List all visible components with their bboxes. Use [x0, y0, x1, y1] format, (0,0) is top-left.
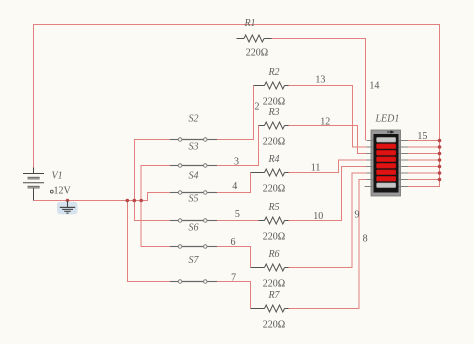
unlit segment bar 8 [377, 183, 396, 188]
ground (selected highlight) [57, 201, 78, 215]
lit segment bar 3 [377, 150, 396, 155]
switch S5 [170, 194, 217, 223]
LED left pin stubs [365, 141, 409, 187]
svg-text:7: 7 [231, 273, 236, 284]
svg-text:220Ω: 220Ω [263, 320, 285, 331]
wire S3 to R3 (net 3) [217, 126, 259, 166]
svg-text:S3: S3 [189, 141, 199, 152]
svg-text:S5: S5 [189, 194, 199, 205]
switch S2 [170, 114, 217, 142]
svg-text:220Ω: 220Ω [263, 184, 285, 195]
junction on bus [66, 199, 70, 203]
switch S3 [170, 141, 217, 167]
svg-text:11: 11 [311, 163, 321, 174]
junction on bus [139, 199, 143, 203]
svg-text:5: 5 [235, 209, 240, 220]
junction on right rail [438, 139, 442, 143]
wire S5 branch from bus [134, 201, 170, 221]
junction on right rail [438, 178, 442, 182]
wire S4 to R4 (net 4) [217, 173, 251, 193]
wire S5 to R5 (net 5) [217, 220, 259, 222]
resistor R6 [251, 249, 289, 290]
wire S6 to R6 (net 6) [217, 247, 251, 268]
wire LED right pin 2 to rail [408, 146, 440, 148]
svg-text:220Ω: 220Ω [263, 279, 285, 290]
junction on right rail [438, 171, 442, 175]
svg-text:R4: R4 [267, 154, 279, 165]
junction on bus [126, 199, 130, 203]
resistor R4 [251, 154, 289, 195]
resistor R5 [259, 202, 289, 243]
wire R5 to LED pin5 (net 10) [289, 167, 367, 221]
wire battery- bus with S4 branch [34, 193, 171, 201]
anode arrow marker [387, 131, 391, 133]
svg-text:S7: S7 [189, 255, 200, 266]
wire LED right pin 4 to rail [408, 159, 440, 161]
svg-text:V1: V1 [52, 171, 63, 182]
svg-text:10: 10 [313, 211, 323, 222]
lit segment bar 6 [377, 170, 396, 175]
wire LED right pin 6 to rail [408, 172, 440, 174]
wire R6 to LED pin6 (net 9) [289, 173, 367, 268]
svg-text:S4: S4 [189, 171, 199, 182]
unlit segment bar 1 [377, 137, 396, 142]
wire S7 branch from bus [127, 201, 170, 282]
resistor R3 [259, 107, 289, 148]
wire S6 branch from bus [141, 201, 170, 247]
svg-text:220Ω: 220Ω [263, 97, 285, 108]
wire R7 to LED pin7 (net 8) [289, 180, 367, 309]
wire S3 branch from bus [141, 166, 170, 201]
svg-text:13: 13 [315, 75, 325, 86]
LED bar graph display LED1 [365, 114, 409, 197]
wire S2 to R2 (net 2) [217, 86, 254, 140]
wire R4 to LED pin4 (net 11) [289, 160, 367, 173]
junction on right rail [438, 165, 442, 169]
wire battery+ top rail to LED right rail [34, 25, 440, 187]
lit segment bar 2 [377, 144, 396, 149]
svg-text:LED1: LED1 [375, 114, 400, 125]
svg-text:S2: S2 [189, 114, 199, 125]
svg-text:R3: R3 [267, 107, 279, 118]
svg-text:12: 12 [320, 117, 330, 128]
svg-text:220Ω: 220Ω [246, 48, 268, 59]
svg-text:R6: R6 [267, 249, 279, 260]
switch S6 [170, 223, 217, 249]
resistor R1 [237, 18, 272, 59]
svg-text:R1: R1 [243, 18, 255, 29]
wire LED right pin 1 to rail [408, 140, 440, 142]
svg-text:R5: R5 [267, 202, 279, 213]
svg-text:8: 8 [363, 234, 368, 245]
wire R3 to LED pin3 (net 12) [289, 126, 367, 154]
wire LED right pin 5 to rail [408, 166, 440, 168]
svg-text:6: 6 [231, 237, 236, 248]
wire S7 to R7 (net 7) [217, 282, 251, 309]
svg-text:12V: 12V [54, 186, 72, 197]
junction on right rail [438, 158, 442, 162]
lit segment bar 4 [377, 157, 396, 162]
svg-text:3: 3 [234, 157, 239, 168]
wire LED right pin 3 to rail [408, 153, 440, 155]
svg-text:9: 9 [355, 210, 360, 221]
svg-text:15: 15 [417, 131, 427, 142]
lit segment bar 7 [377, 176, 396, 181]
wire R1 to LED pin1 (net 14) [272, 39, 366, 141]
switch S7 [170, 255, 217, 283]
svg-text:4: 4 [232, 181, 237, 192]
junction on right rail [438, 145, 442, 149]
wire R2 to LED pin2 (net 13) [289, 86, 367, 148]
svg-text:R7: R7 [267, 290, 280, 301]
lit segment bar 5 [377, 163, 396, 168]
resistor R7 [251, 290, 289, 331]
switch S4 [170, 171, 217, 195]
svg-text:R2: R2 [267, 67, 279, 78]
wire LED right pin 7 to rail [408, 179, 440, 181]
svg-text:220Ω: 220Ω [263, 137, 285, 148]
LED right pin stubs [399, 140, 409, 142]
svg-text:2: 2 [255, 102, 260, 113]
svg-text:S6: S6 [189, 223, 199, 234]
resistor R2 [254, 67, 289, 108]
svg-text:14: 14 [369, 81, 379, 92]
svg-text:220Ω: 220Ω [263, 232, 285, 243]
battery V1 [23, 168, 44, 201]
junction on right rail [438, 152, 442, 156]
wire S2 branch from bus [134, 140, 170, 201]
junction on bus [133, 199, 137, 203]
